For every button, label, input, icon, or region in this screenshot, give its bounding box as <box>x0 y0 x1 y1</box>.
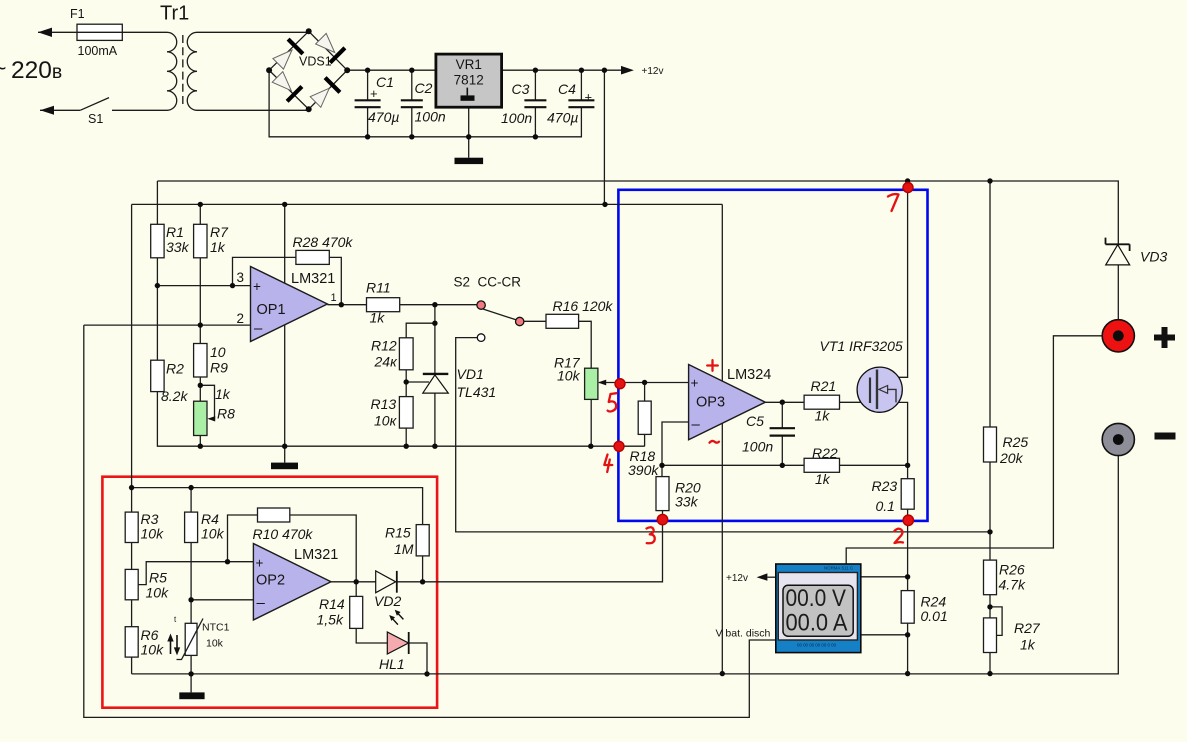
svg-text:390k: 390k <box>628 462 659 478</box>
wire transformer secondary bottom to bridge <box>197 109 309 110</box>
svg-text:S2 CC-CR: S2 CC-CR <box>454 275 522 290</box>
digital meter module <box>776 564 861 653</box>
svg-text:R13: R13 <box>371 396 397 412</box>
wire R16 to R17 top <box>579 321 592 368</box>
wire capacitor C3 leads <box>534 70 536 137</box>
wire R18 top lead <box>644 383 646 402</box>
svg-text:R15: R15 <box>385 525 411 541</box>
resistor R3 <box>125 512 138 542</box>
svg-text:10k: 10k <box>146 585 170 601</box>
svg-text:10k: 10k <box>141 526 165 542</box>
wire capacitor C1 leads <box>367 70 369 137</box>
svg-text:R2: R2 <box>166 361 184 377</box>
wire TL431 ref stub <box>406 381 429 383</box>
svg-text:R11: R11 <box>366 280 391 296</box>
wire VR1 ground lead <box>468 107 470 158</box>
svg-text:1k: 1k <box>815 408 831 424</box>
svg-text:8.2k: 8.2k <box>161 388 188 404</box>
wire output bus rail top (node 7 rail) <box>157 181 1118 244</box>
svg-text:+12v: +12v <box>642 66 664 77</box>
ground symbol red box <box>179 692 204 699</box>
node 5 marker dot <box>615 379 625 389</box>
svg-text:–: – <box>257 595 266 612</box>
plus output terminal <box>1102 320 1134 352</box>
bridge rectifier VDS1 diamond <box>269 31 347 109</box>
arrows up-down near R6 <box>167 634 180 656</box>
svg-text:470µ: 470µ <box>547 110 578 126</box>
wire R17 bottom to zero rail <box>590 399 592 446</box>
svg-text:2: 2 <box>237 311 245 326</box>
wire R8 bottom to zero rail <box>199 436 201 447</box>
wire R7 bottom to R9 <box>199 258 201 344</box>
svg-text:220в: 220в <box>11 57 62 84</box>
resistor R23 <box>901 479 914 510</box>
switch S2 contact CR <box>477 334 485 342</box>
wire R24 bottom to ground rail <box>907 623 909 673</box>
node 2 handwritten label <box>894 529 903 543</box>
resistor R26 <box>984 560 997 595</box>
svg-text:R22: R22 <box>812 445 838 461</box>
svg-text:R27: R27 <box>1014 620 1041 636</box>
resistor R10 <box>258 508 290 522</box>
thermistor NTC1 <box>177 619 204 660</box>
svg-text:R10 470k: R10 470k <box>253 526 314 542</box>
wire R7 top lead <box>199 204 201 224</box>
svg-text:00.0 A: 00.0 A <box>786 609 848 636</box>
wire R8 wiper bracket <box>200 385 214 419</box>
zener diode VD3 <box>1106 238 1130 265</box>
wire VT1 source to R23 <box>877 402 908 478</box>
svg-text:NTC1: NTC1 <box>202 622 230 634</box>
wire bridge right node to VR1 input <box>347 69 436 71</box>
svg-text:TL431: TL431 <box>457 384 497 400</box>
diode VDS1 bottom-left <box>272 72 302 102</box>
arrow meter +12v <box>757 573 768 580</box>
svg-text:+: + <box>691 376 699 391</box>
regulator VR1 ground pin symbol <box>466 88 468 96</box>
wire VR1 output to +12v arrow <box>502 69 622 71</box>
wire OP2 output to VD2 <box>331 581 376 583</box>
resistor R2 <box>151 360 164 391</box>
switch S1 lever <box>80 98 109 111</box>
wire R27 bottom to ground rail <box>989 653 991 674</box>
wire VT1 drain to node 7 <box>877 181 908 377</box>
op-amp OP2 <box>253 544 331 621</box>
wire OP1 output to R11 <box>327 304 366 306</box>
wire OP3 supply drop (behind OP3) <box>721 204 723 673</box>
capacitor C2 plates <box>401 100 423 107</box>
wire R11 to S2 common <box>400 304 478 306</box>
wire R13 bottom to zero rail <box>405 428 407 446</box>
resistor R12 <box>399 338 413 370</box>
svg-text:R7: R7 <box>210 224 229 240</box>
svg-text:1,5k: 1,5k <box>317 612 344 628</box>
trimmer R17 <box>585 368 598 399</box>
ground symbol under OP1 <box>284 446 286 462</box>
svg-text:R14: R14 <box>319 596 345 612</box>
svg-text:–: – <box>254 320 263 337</box>
resistor R20 <box>656 477 669 511</box>
arrow AC bottom left <box>40 106 54 115</box>
wire S1 to transformer primary <box>112 109 167 111</box>
wire R20 bottom through node 3 to temperature latch <box>423 511 663 582</box>
wire S2 common riser to zero rail <box>434 305 436 447</box>
svg-text:OP1: OP1 <box>257 302 286 318</box>
wire S2 CR contact to current-set divider <box>456 338 990 532</box>
resistor R1 <box>151 224 164 257</box>
svg-text:C4: C4 <box>558 81 576 97</box>
svg-text:10k: 10k <box>141 642 165 658</box>
wire R1 bottom to R2 top <box>156 258 158 360</box>
wire capacitor C4 top lead <box>580 70 582 100</box>
capacitor C5 plates <box>770 428 795 435</box>
svg-text:1k: 1k <box>815 471 831 487</box>
resistor R22 <box>804 458 839 472</box>
wire bridge left node down to filter ground rail <box>269 70 581 137</box>
transformer Tr1 primary winding <box>167 32 177 110</box>
resistor R18 <box>638 401 651 434</box>
svg-text:VR1: VR1 <box>456 57 482 72</box>
svg-text:R5: R5 <box>149 570 167 586</box>
transistor VT1 IRF3205 <box>857 367 902 412</box>
wire R3 divider chain <box>131 488 133 674</box>
wire meter +12v stub <box>767 576 776 578</box>
svg-text:1k: 1k <box>1020 637 1036 653</box>
svg-text:10: 10 <box>210 344 226 360</box>
svg-text:~: ~ <box>0 55 6 81</box>
wire AC line bottom with arrow <box>40 109 80 111</box>
svg-text:F1: F1 <box>70 7 85 21</box>
svg-text:R21: R21 <box>811 378 837 394</box>
wire meter supply from plus bus <box>846 336 1102 564</box>
shunt regulator VD1 TL431 <box>423 374 449 393</box>
svg-text:VD3: VD3 <box>1140 249 1167 265</box>
capacitor C1 plates <box>355 100 381 107</box>
wire C5 leads <box>781 402 783 465</box>
diode VDS1 bottom-right <box>310 78 340 108</box>
svg-text:OP3: OP3 <box>696 395 725 411</box>
svg-text:1: 1 <box>331 292 337 304</box>
svg-text:7812: 7812 <box>454 73 484 88</box>
svg-text:+: + <box>256 556 264 571</box>
wire NTC ground stem <box>190 674 192 693</box>
wire R10 feedback loop <box>228 515 357 582</box>
resistor R4 <box>185 512 198 542</box>
CC/CV control zone frame (blue box) <box>618 190 927 521</box>
op-amp OP1 <box>251 267 328 342</box>
wire main ground rail bottom <box>132 456 1119 674</box>
svg-text:+: + <box>253 279 261 294</box>
wire R15 bottom lead <box>422 556 424 582</box>
fuse F1 <box>77 24 122 40</box>
wire transformer secondary top to bridge <box>197 31 309 33</box>
svg-text:Tr1: Tr1 <box>160 3 189 25</box>
svg-text:IRF3205: IRF3205 <box>849 338 903 354</box>
node 2 marker dot <box>903 515 913 525</box>
arrow R8 wiper <box>207 416 215 421</box>
resistor R15 <box>416 525 429 556</box>
wire VD2 cathode to node <box>397 581 423 583</box>
wire meter current sense bottom <box>861 634 908 636</box>
wire fuse to transformer primary <box>122 31 167 33</box>
svg-text:100n: 100n <box>415 109 446 125</box>
wire R14 bottom to HL1 <box>356 628 388 643</box>
svg-text:S1: S1 <box>88 112 103 126</box>
resistor R25 <box>984 427 997 462</box>
wire OP2 minus input line <box>191 599 253 601</box>
svg-text:1k: 1k <box>210 239 226 255</box>
svg-text:LM321: LM321 <box>291 271 335 287</box>
transformer Tr1 core <box>182 35 184 107</box>
node 7 handwritten label <box>888 194 899 211</box>
OP3 polarity plus handwritten <box>707 360 718 371</box>
svg-text:R9: R9 <box>210 360 228 376</box>
svg-text:0.1: 0.1 <box>876 498 895 514</box>
svg-text:VD1: VD1 <box>457 366 484 382</box>
switch S2 contact CV <box>477 301 485 309</box>
svg-text:R1: R1 <box>166 224 184 240</box>
resistor R11 <box>367 298 400 312</box>
wire feedback rail R22/C5 <box>662 464 908 466</box>
resistor R9 <box>194 344 207 378</box>
svg-text:00.0 V: 00.0 V <box>786 585 847 612</box>
svg-text:R25: R25 <box>1003 434 1029 450</box>
wire R14 top lead <box>355 582 357 597</box>
svg-text:20k: 20k <box>999 450 1024 466</box>
resistor R24 <box>901 591 914 624</box>
svg-text:1k: 1k <box>215 386 231 402</box>
svg-text:24к: 24к <box>374 354 399 370</box>
svg-text:C5: C5 <box>746 413 764 429</box>
svg-text:VD2: VD2 <box>374 593 401 609</box>
switch S2 contact CC <box>516 317 524 325</box>
trimmer R27 <box>984 618 997 653</box>
resistor R13 <box>399 397 413 429</box>
arrow R17 wiper <box>598 380 606 386</box>
wire R2 bottom to zero rail <box>157 392 644 447</box>
svg-text:1k: 1k <box>370 310 386 326</box>
OP3 polarity minus handwritten <box>710 441 720 443</box>
wire R25 bottom to R26 <box>989 462 991 560</box>
svg-text:10k: 10k <box>201 526 225 542</box>
resistor R7 <box>194 224 207 257</box>
wire R26 to R27 <box>989 595 991 618</box>
minus output terminal <box>1102 423 1134 455</box>
wire +12v rail corner down to red box <box>131 204 133 487</box>
svg-text:470µ: 470µ <box>368 109 399 125</box>
svg-text:–: – <box>692 416 701 433</box>
transformer Tr1 secondary winding <box>187 32 197 110</box>
svg-text:33k: 33k <box>675 494 699 510</box>
node 7 marker dot <box>903 183 913 193</box>
wire OP3 minus input to feedback node <box>662 422 689 477</box>
diode VDS1 top-right <box>316 33 345 62</box>
ground symbol under VR1 <box>455 158 484 164</box>
svg-text:100mA: 100mA <box>78 44 118 58</box>
svg-text:C3: C3 <box>512 81 530 97</box>
wire R4/NTC1 chain <box>190 488 192 674</box>
svg-text:NORMA S11 C: NORMA S11 C <box>824 566 853 571</box>
svg-text:HL1: HL1 <box>379 656 405 672</box>
wire R5 wiper to OP2 plus input <box>137 562 253 585</box>
node 3 marker dot <box>657 514 667 524</box>
wire R9 bottom to R8 <box>199 377 201 401</box>
plus polarity symbol <box>1154 327 1175 348</box>
diode VDS1 top-left <box>273 39 303 69</box>
svg-text:0.01: 0.01 <box>921 608 948 624</box>
svg-text:10k: 10k <box>557 368 581 384</box>
resistor R16 <box>546 314 579 328</box>
svg-text:3: 3 <box>237 270 245 285</box>
wire R12 top lead <box>406 323 435 338</box>
regulator VR1 body <box>436 54 502 107</box>
svg-text:100n: 100n <box>501 110 532 126</box>
svg-text:1M: 1M <box>394 541 414 557</box>
capacitor C4 plates <box>568 100 594 107</box>
svg-text:R12: R12 <box>371 338 397 354</box>
svg-text:OP2: OP2 <box>256 573 285 589</box>
wire +12v feed down to supply rail <box>603 70 605 204</box>
resistor R21 <box>804 395 839 409</box>
wire OP1 pin2 input line <box>84 324 251 326</box>
svg-text:4.7k: 4.7k <box>999 577 1026 593</box>
wire meter voltage sense top <box>861 576 908 578</box>
wire R18 bottom lead <box>644 434 646 446</box>
arrow AC top left <box>38 28 52 37</box>
wire OP1 pin3 input line <box>157 285 250 287</box>
svg-text:LM324: LM324 <box>727 367 771 383</box>
wire +12v supply rail to op-amp area <box>132 203 723 205</box>
svg-text:33k: 33k <box>166 239 190 255</box>
svg-text:V bat. disch: V bat. disch <box>716 628 771 640</box>
svg-text:C2: C2 <box>415 80 433 96</box>
svg-text:10к: 10к <box>374 413 398 429</box>
op-amp OP3 <box>689 365 766 440</box>
diode VD2 <box>376 571 397 593</box>
svg-text:R8: R8 <box>217 406 235 422</box>
wire R17 wiper to OP3 plus input <box>599 382 689 384</box>
capacitor C3 plates <box>524 100 546 107</box>
svg-text:R16 120k: R16 120k <box>553 298 614 314</box>
trimmer R8 <box>194 401 207 435</box>
wire S2 CC contact to R16 <box>524 320 547 322</box>
wire R15 top to red box +12 rail <box>132 488 423 526</box>
wire HL1 cathode to ground rail <box>409 643 427 674</box>
minus polarity symbol <box>1155 433 1176 440</box>
LED HL1 <box>387 610 408 654</box>
wire VD3 cathode to plus terminal <box>1117 265 1119 320</box>
wire R28 feedback loop <box>233 257 342 304</box>
resistor R28 <box>296 250 329 264</box>
node 5 handwritten label <box>608 393 617 411</box>
wire R27 tap bracket <box>990 607 1002 636</box>
svg-text:VT1: VT1 <box>820 338 846 354</box>
wire rail top corner down to R1 <box>156 181 158 224</box>
wire capacitor C2 leads <box>411 70 413 137</box>
arrow +12v output <box>621 66 634 75</box>
svg-text:R26: R26 <box>999 562 1025 578</box>
svg-text:R23: R23 <box>872 478 898 494</box>
svg-text:C1: C1 <box>376 74 394 90</box>
svg-text:10k: 10k <box>206 638 224 650</box>
wire R25 top lead <box>989 181 991 427</box>
wire R12 to R13 junction <box>405 370 407 397</box>
node 4 handwritten label <box>604 455 612 473</box>
node 4 marker dot <box>614 441 624 451</box>
svg-text:+12v: +12v <box>726 573 748 584</box>
resistor R14 <box>350 596 363 628</box>
wire battery sense line left/bottom to meter <box>84 325 776 717</box>
node 3 handwritten label <box>647 527 655 543</box>
svg-text:100n: 100n <box>742 439 773 455</box>
svg-text:+: + <box>370 86 378 101</box>
wire R23 bottom through node 2 to R24 <box>907 509 909 590</box>
wire OP3 output to gate <box>765 401 877 403</box>
svg-text:+: + <box>585 90 593 105</box>
wire AC line top to fuse <box>38 31 77 33</box>
trimmer R5 <box>125 569 138 599</box>
svg-text:VDS1: VDS1 <box>299 55 332 69</box>
svg-text:00 00 00 00 00 0 00: 00 00 00 00 00 0 00 <box>797 642 837 647</box>
wire OP1 power pins (behind OP1) <box>284 204 286 446</box>
switch S2 lever <box>482 309 517 321</box>
temperature control zone frame (red box) <box>102 477 437 708</box>
resistor R6 <box>125 627 138 657</box>
svg-text:R28 470k: R28 470k <box>293 234 354 250</box>
svg-text:LM321: LM321 <box>294 547 338 563</box>
